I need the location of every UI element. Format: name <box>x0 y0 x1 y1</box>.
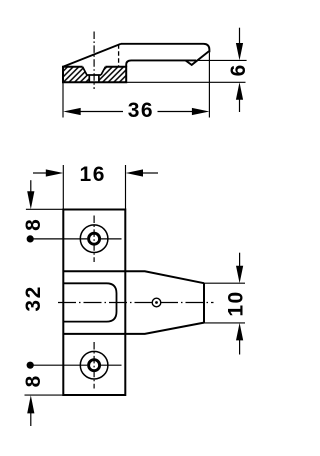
dim 10 top extension line <box>204 282 245 284</box>
dim 16 right arrow <box>143 172 159 174</box>
dim 8 bottom up arrow <box>30 412 32 426</box>
plate top edge extension to the left <box>26 208 63 210</box>
top hole vertical centre line <box>93 216 95 263</box>
small hole on tongue <box>152 298 161 307</box>
dim 10 bottom extension line <box>204 322 245 324</box>
svg-text:16: 16 <box>80 163 106 186</box>
top screw hole outer circle <box>80 225 108 253</box>
dim 16 right extension line <box>125 165 127 210</box>
extension line: arm underside to the right (dim 6 top) <box>196 59 247 61</box>
svg-text:10: 10 <box>225 290 248 316</box>
extension line: base bottom to the right (dim 6 bottom) <box>126 81 245 83</box>
dimension line 36 with arrows <box>77 111 123 113</box>
top screw hole inner circle <box>89 233 100 244</box>
base cross-section outline <box>63 67 126 83</box>
svg-text:8: 8 <box>22 375 45 387</box>
tongue lower edge <box>63 323 204 334</box>
dim 10 up arrow <box>239 339 241 355</box>
arm underside fillet and bottom edge <box>126 60 196 66</box>
bottom screw hole inner circle <box>89 360 100 371</box>
dim 10 down arrow <box>239 253 241 268</box>
extension line left of dim 36 <box>62 82 64 117</box>
plate bottom edge extension to the left <box>25 394 64 396</box>
dim 8 bottom dot at hole centre <box>27 362 34 369</box>
countersunk hole edges <box>83 67 106 83</box>
tongue right end <box>203 283 205 322</box>
svg-text:8: 8 <box>22 219 45 231</box>
plate outline <box>63 210 125 396</box>
bottom screw hole outer circle <box>80 351 108 379</box>
dimension 6 up arrow <box>239 98 241 112</box>
dim 16 left arrow <box>33 172 48 174</box>
svg-text:6: 6 <box>227 65 250 77</box>
tongue upper edge <box>63 271 204 283</box>
dim 16 left extension line <box>62 165 64 210</box>
svg-text:32: 32 <box>22 285 45 311</box>
horizontal centre line <box>58 302 214 304</box>
hook barb and end chamfer <box>185 51 209 65</box>
arm top edge with rounded right corner <box>121 44 209 52</box>
top hole horizontal centre line <box>30 238 121 240</box>
recess rounded slot <box>63 283 116 321</box>
dim 8 top down arrow <box>30 180 32 192</box>
extension line right of dim 36 <box>208 52 210 117</box>
bottom hole vertical centre line <box>93 342 95 389</box>
dim 8 top dot at hole centre <box>27 235 34 242</box>
svg-text:36: 36 <box>128 99 154 122</box>
wedge top diagonal <box>63 44 121 67</box>
dimension 6 down arrow <box>239 28 241 45</box>
vertical centre line of countersunk hole <box>93 32 95 90</box>
base cross-section hatch fill <box>63 67 126 83</box>
bottom hole horizontal centre line <box>30 364 121 366</box>
hidden edge (dashed) <box>118 44 120 67</box>
